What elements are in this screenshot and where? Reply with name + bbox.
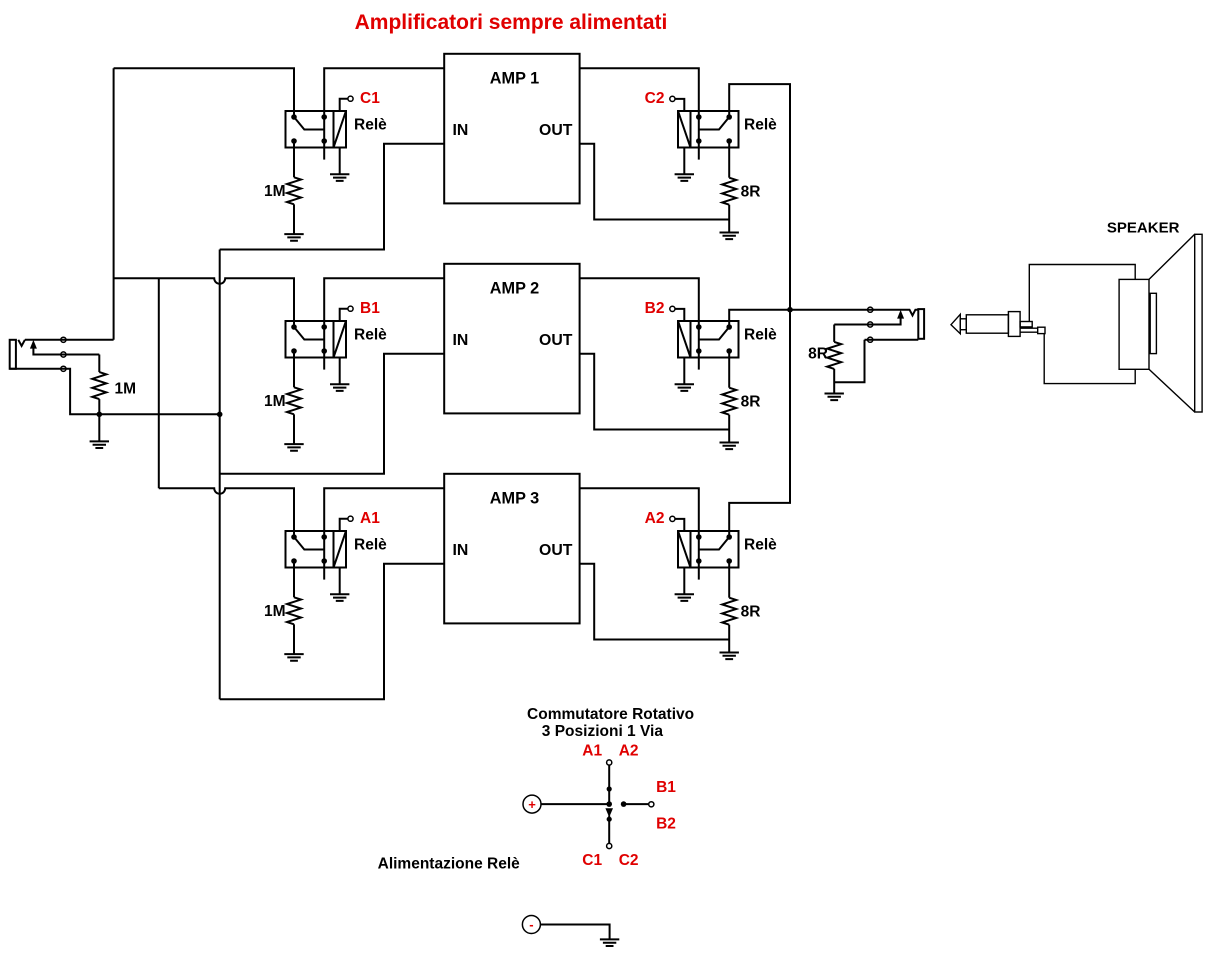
wire: AMP1 IN to bus [220,144,445,250]
svg-text:IN: IN [453,542,469,559]
svg-text:A1: A1 [360,510,380,527]
svg-text:Relè: Relè [354,536,387,553]
wire: K2 contact to R2 [728,148,730,178]
wire: junction to ground [98,414,100,441]
amplifier AMP2 [444,264,579,414]
input jack J1 [10,337,220,414]
svg-text:1M: 1M [264,183,286,200]
relay K3 (input relay B1) [286,306,354,391]
wire: R2 to junction and ground [728,205,730,233]
svg-text:8R: 8R [741,184,761,201]
wire: K4 contact to R4 [728,358,730,388]
svg-text:+: + [528,797,536,812]
svg-text:3 Posizioni 1 Via: 3 Posizioni 1 Via [542,723,664,740]
resistor R6 8R [722,598,736,625]
svg-text:A2: A2 [619,743,639,760]
svg-text:IN: IN [453,122,469,139]
wire: R7 to ground junction [98,399,100,414]
wire: K5 lower contact to R5 [293,568,295,598]
svg-text:OUT: OUT [539,122,573,139]
ground under R8 [825,394,844,401]
svg-text:AMP 2: AMP 2 [490,280,539,298]
svg-text:A2: A2 [645,510,665,527]
ground under R6 [720,653,739,660]
wire: K1 lower contact to R1 [293,148,295,178]
amplifier AMP3 [444,474,579,624]
wire: AMP3 top to K6 [580,488,699,531]
ground under R4 [720,443,739,450]
wire: K4 common to output jack [729,310,874,321]
relay K2 (output relay C2) [670,96,739,181]
svg-text:Amplificatori sempre alimentat: Amplificatori sempre alimentati [355,11,668,34]
wire: input rail row2 to K3 common (hop over bus) [114,278,294,321]
resistor R7 1M [92,372,106,399]
node B contact [621,801,627,807]
svg-text:Relè: Relè [744,116,777,133]
terminal A [607,760,612,765]
wire: AMP3 OUT to R6 junction [580,564,730,640]
svg-text:1M: 1M [264,393,286,410]
battery - terminal [522,916,540,934]
wire: jack tip to R7 [98,355,100,373]
svg-text:-: - [529,917,533,932]
wire: AMP1 top to K2 [580,68,699,111]
svg-text:Relè: Relè [744,536,777,553]
svg-text:8R: 8R [741,604,761,621]
svg-text:A1: A1 [582,743,602,760]
output jack J2 [834,307,924,342]
wire: K3 lower contact to R3 [293,358,295,388]
wire: K6 contact to R6 [728,568,730,598]
terminal B [649,802,654,807]
svg-text:Relè: Relè [354,116,387,133]
wire: AMP2 OUT to R4 junction [580,354,730,430]
wire: R5 to ground [293,624,295,654]
wire: AMP3 IN to bus [220,564,445,700]
rotor arrow [605,808,613,817]
svg-text:C1: C1 [360,90,380,107]
svg-text:OUT: OUT [539,332,573,349]
resistor R4 8R [722,388,736,415]
svg-text:AMP 1: AMP 1 [490,70,539,88]
ground under R5 [284,654,303,661]
battery + terminal [523,795,541,813]
node A contact [607,786,612,791]
wire: R8 to ground junction and jack sleeve [834,340,864,394]
svg-text:C2: C2 [645,90,665,107]
wire: K2 common to speaker bus [729,84,790,310]
resistor R8 8R [827,342,841,369]
node rotor center [606,801,612,807]
svg-text:SPEAKER: SPEAKER [1107,220,1180,237]
node C contact [607,817,612,822]
wire: input rail row3 to K5 common (hop over bus) [159,278,294,531]
relay K5 (input relay A1) [286,516,354,601]
node: bus to input ground junction [217,412,223,418]
svg-text:C1: C1 [582,852,602,869]
wire: B branch [624,803,649,805]
svg-text:C2: C2 [619,852,639,869]
terminal C [607,843,612,848]
wire: K5 NO contact to AMP3 [324,488,444,531]
ground under R3 [284,444,303,451]
svg-text:Commutatore Rotativo: Commutatore Rotativo [527,706,694,723]
svg-text:IN: IN [453,332,469,349]
ground under R2 [720,233,739,240]
amplifier AMP1 [444,54,579,204]
svg-text:AMP 3: AMP 3 [490,490,539,508]
wire: R4 to junction and ground [728,415,730,443]
wire: K3 NO contact to AMP2 [324,278,444,321]
wire: K1 NO contact to AMP1 [324,68,444,111]
ground under R7 [90,441,109,448]
ground under R1 [284,234,303,241]
resistor R2 8R [722,178,736,205]
svg-text:Relè: Relè [354,326,387,343]
wire: A branch [608,766,610,805]
speaker LS1 [1119,234,1202,412]
node: speaker bus junction [787,307,793,313]
wire: R3 to ground [293,414,295,444]
speaker plug P1 [951,312,1045,337]
node: R7 ground junction [97,412,103,418]
wire: + feed to rotor [541,803,609,805]
svg-text:8R: 8R [808,346,828,363]
resistor R3 1M [287,387,301,414]
wire: input ground bus [219,250,221,700]
wire: K6 common to speaker bus [729,310,790,531]
wire: input rail row1 to K1 common [114,68,294,111]
svg-text:B1: B1 [360,300,380,317]
wire: jack tip to R8 [833,325,835,342]
svg-text:B2: B2 [645,300,665,317]
wire: AMP2 top to K4 [580,278,699,321]
relay K6 (output relay A2) [670,516,739,601]
svg-text:Relè: Relè [744,326,777,343]
wire: AMP2 IN to bus [220,354,445,474]
svg-text:8R: 8R [741,394,761,411]
svg-text:Alimentazione Relè: Alimentazione Relè [378,856,520,873]
svg-text:OUT: OUT [539,542,573,559]
wire: plug to speaker (bottom lead) [1044,334,1135,384]
wire: R1 to ground [293,204,295,234]
svg-text:1M: 1M [264,603,286,620]
wire: plug to speaker (top lead) [1029,265,1135,322]
resistor R5 1M [287,597,301,624]
wire: C branch [608,816,610,844]
wire: left input vertical rail [113,68,115,340]
svg-text:1M: 1M [115,381,137,398]
wire: - terminal to ground [540,925,609,940]
wire: AMP1 OUT to R2 junction [580,144,730,220]
ground at - terminal [600,939,619,946]
svg-text:B1: B1 [656,779,676,796]
wire: R6 to junction and ground [728,625,730,653]
svg-text:B2: B2 [656,816,676,833]
resistor R1 1M [287,177,301,204]
relay K4 (output relay B2) [670,306,739,391]
rotary switch SW1 [541,743,676,869]
relay K1 (input relay C1) [286,96,354,181]
